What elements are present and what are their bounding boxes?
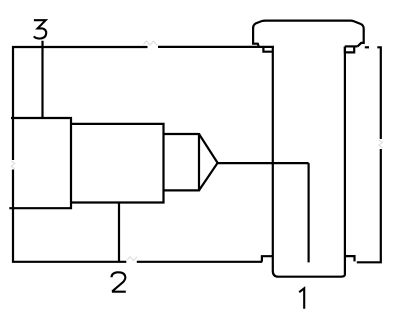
- housing top edge right segment: [158, 46, 274, 48]
- break squiggle left: [11, 161, 15, 169]
- block B body: [71, 124, 164, 203]
- groove notch bottom right: [345, 256, 355, 261]
- outer right edge upper segment with hook: [377, 47, 381, 139]
- break squiggle right: [379, 140, 383, 148]
- block C top: [164, 133, 200, 135]
- block C bottom: [164, 189, 200, 191]
- break squiggle top: [144, 41, 158, 45]
- bore vertical line: [308, 163, 310, 262]
- cone base: [198, 133, 200, 191]
- label 2: [111, 272, 125, 291]
- groove notch bottom left: [262, 256, 273, 261]
- surface line right of shaft: [345, 45, 358, 47]
- label 3: [34, 20, 46, 38]
- groove notch top right: [345, 47, 354, 53]
- pin head cap: [253, 21, 364, 47]
- pin shaft: [273, 47, 345, 277]
- groove notch top left: [263, 47, 272, 52]
- break squiggle bottom: [127, 257, 137, 261]
- label 1: [299, 288, 304, 308]
- leader line 2: [118, 203, 120, 262]
- surface tick right of cap: [365, 46, 369, 48]
- housing top edge left segment: [13, 47, 148, 160]
- block A body: [9, 118, 71, 208]
- housing bottom edge right segment: [137, 261, 262, 263]
- housing left edge lower segment: [13, 170, 126, 262]
- outer right edge lower segment: [357, 149, 381, 262]
- leader line 3: [41, 41, 43, 118]
- bore horizontal line: [218, 162, 309, 164]
- cone tip: [199, 134, 218, 190]
